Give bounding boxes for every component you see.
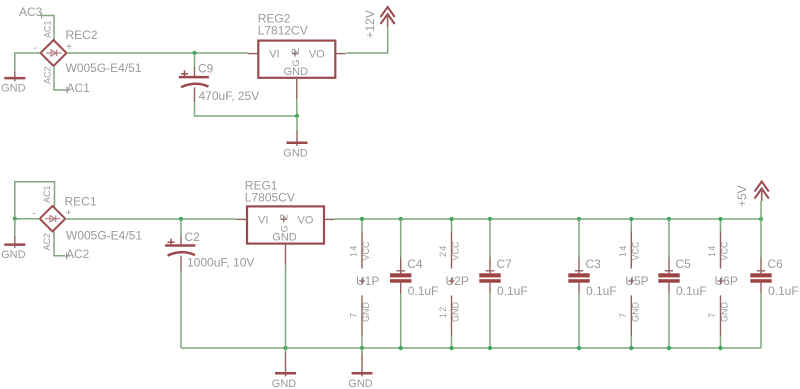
svg-text:L7805CV: L7805CV <box>245 191 295 205</box>
svg-text:C5: C5 <box>676 257 692 271</box>
svg-text:C2: C2 <box>185 230 201 244</box>
wire rail to C6 <box>760 219 762 258</box>
capacitor C2 <box>165 236 195 272</box>
wire junction to C2 <box>180 219 182 236</box>
svg-text:AC2: AC2 <box>42 233 52 251</box>
value 0.1uF (C6) <box>768 284 799 298</box>
svg-text:GND: GND <box>272 378 297 389</box>
svg-text:14: 14 <box>707 245 717 257</box>
svg-text:AC1: AC1 <box>67 81 91 95</box>
svg-text:7: 7 <box>618 312 628 318</box>
wire REG2 VO to +12V <box>346 26 387 54</box>
label C2 <box>185 230 201 244</box>
bridge rectifier REC1 <box>32 206 71 232</box>
wire junction down to ground <box>14 219 16 238</box>
IC power gate U1P <box>356 274 379 288</box>
svg-text:GND: GND <box>348 378 373 389</box>
pin name GND (U2P) <box>451 302 461 323</box>
svg-text:0.1uF: 0.1uF <box>408 284 439 298</box>
svg-text:GND: GND <box>631 302 641 323</box>
svg-text:7: 7 <box>349 312 359 318</box>
svg-text:AC1: AC1 <box>42 185 52 203</box>
svg-text:+12V: +12V <box>363 10 377 38</box>
svg-text:REC2: REC2 <box>66 28 98 42</box>
svg-text:7: 7 <box>707 312 717 318</box>
wire AC3 to REC2 AC1 pin <box>42 16 55 41</box>
label C7 <box>497 257 513 271</box>
ground GND (top left) <box>1 71 26 95</box>
junction at C2 top <box>179 217 183 221</box>
wire REC2 minus to GND <box>15 53 41 71</box>
svg-text:0.1uF: 0.1uF <box>497 284 528 298</box>
wire REG1 GND to rail <box>285 264 287 348</box>
pin number 7 (U1P GND) <box>349 312 359 318</box>
junction U1P bottom <box>360 346 364 350</box>
label C6 <box>768 257 784 271</box>
wire rail to U6P VCC pin <box>720 219 722 232</box>
svg-text:12: 12 <box>438 306 448 318</box>
net label AC2 <box>63 247 89 261</box>
pin number 24 (U2P VCC) <box>438 245 448 257</box>
wire REC1 AC1 loop <box>15 182 55 219</box>
voltage regulator REG1 <box>237 206 335 264</box>
value 1000uF, 10V <box>187 256 254 270</box>
pin name VCC (U2P) <box>451 241 461 261</box>
wire junction to C9 <box>194 53 196 68</box>
svg-text:VCC: VCC <box>631 241 641 261</box>
capacitor C9 <box>179 67 209 103</box>
junction U2P bottom <box>449 346 453 350</box>
wire U5P GND pin to rail <box>630 336 632 349</box>
junction U2P top <box>449 217 453 221</box>
svg-text:GND: GND <box>284 66 309 78</box>
label C9 <box>198 62 214 76</box>
VCC pin of U6P <box>720 231 722 268</box>
pin name AC2 of REC1 <box>42 233 52 251</box>
svg-text:REC1: REC1 <box>65 195 97 209</box>
wire REG2 GND to junction <box>296 99 298 116</box>
pin number 7 (U6P GND) <box>707 312 717 318</box>
wire U1P GND pin to rail <box>361 336 363 349</box>
svg-text:C7: C7 <box>497 257 513 271</box>
wire U6P GND pin to rail <box>720 336 722 349</box>
svg-text:AC1: AC1 <box>43 20 53 38</box>
label REG2 <box>258 12 291 26</box>
wire C5 to GND rail <box>668 294 670 348</box>
svg-text:C6: C6 <box>768 257 784 271</box>
svg-text:G: G <box>280 225 290 232</box>
svg-text:C9: C9 <box>198 62 214 76</box>
GND pin of U2P <box>451 295 453 335</box>
value W005G-E4/51 (REC2) <box>66 61 142 75</box>
svg-text:14: 14 <box>618 245 628 257</box>
junction left of REC1 <box>13 217 17 221</box>
junction C7 bottom <box>488 346 492 350</box>
wire C4 to GND rail <box>400 294 402 348</box>
wire U2P GND pin to rail <box>451 336 453 349</box>
junction below REG2 <box>295 114 299 118</box>
value 470uF, 25V <box>199 89 260 103</box>
capacitor C6 <box>750 257 771 293</box>
wire rail to U5P VCC pin <box>630 219 632 232</box>
junction C6 top <box>759 217 763 221</box>
svg-text:GND: GND <box>451 302 461 323</box>
junction C4 bottom <box>399 346 403 350</box>
junction C7 top <box>488 217 492 221</box>
wire rail to C4 <box>400 219 402 258</box>
svg-text:GND: GND <box>272 232 297 244</box>
value 0.1uF (C4) <box>408 284 439 298</box>
pin name VCC (U1P) <box>361 241 371 261</box>
wire REC2 AC2 pin to AC1 label <box>54 66 66 90</box>
junction U1P top <box>360 217 364 221</box>
junction U6P top <box>718 217 722 221</box>
VCC pin of U5P <box>630 231 632 268</box>
label C5 <box>676 257 692 271</box>
net label AC3 <box>19 5 45 19</box>
wire REC1 minus to junction <box>15 218 40 220</box>
value L7812CV <box>258 24 308 38</box>
wire C7 to GND rail <box>489 294 491 348</box>
wire rail to U1P VCC pin <box>361 219 363 232</box>
GND pin of U5P <box>630 295 632 335</box>
junction U5P bottom <box>629 346 633 350</box>
pin name AC2 of REC2 <box>43 66 53 84</box>
ground GND (below REG2) <box>283 131 308 160</box>
svg-text:GND: GND <box>283 147 308 159</box>
pin number 14 (U1P VCC) <box>349 245 359 257</box>
wire REC2 plus to REG2 VI <box>67 52 249 54</box>
label REC1 <box>65 195 97 209</box>
pin name GND (U5P) <box>631 302 641 323</box>
svg-text:VI: VI <box>258 214 268 226</box>
voltage regulator REG2 <box>248 41 346 99</box>
capacitor C7 <box>479 257 500 293</box>
svg-text:VCC: VCC <box>361 241 371 261</box>
svg-text:L7812CV: L7812CV <box>258 24 308 38</box>
svg-text:VCC: VCC <box>720 241 730 261</box>
VCC pin of U2P <box>451 231 453 268</box>
svg-text:0.1uF: 0.1uF <box>768 284 799 298</box>
svg-text:GND: GND <box>1 249 26 261</box>
wire U1P junction to ground <box>361 348 363 354</box>
value 0.1uF (C3) <box>586 284 617 298</box>
value L7805CV <box>245 191 295 205</box>
junction below REG1 <box>283 346 287 350</box>
ground GND (below U1P) <box>348 353 373 389</box>
GND pin of U1P <box>361 295 363 335</box>
ground GND (below REG1) <box>272 353 297 389</box>
svg-text:W005G-E4/51: W005G-E4/51 <box>66 61 142 75</box>
GND pin of U6P <box>720 295 722 335</box>
svg-text:0.1uF: 0.1uF <box>586 284 617 298</box>
capacitor C5 <box>658 257 679 293</box>
svg-text:14: 14 <box>349 245 359 257</box>
pin number 12 (U2P GND) <box>438 306 448 318</box>
wire rail to +5V <box>760 201 762 219</box>
value W005G-E4/51 (REC1) <box>66 229 142 243</box>
svg-text:C3: C3 <box>586 257 602 271</box>
capacitor C4 <box>390 257 411 293</box>
svg-text:-: - <box>32 209 35 220</box>
pin name GND (U6P) <box>720 302 730 323</box>
net label AC1 <box>64 81 90 95</box>
pin number 14 (U5P VCC) <box>618 245 628 257</box>
IC power gate U2P <box>446 274 469 288</box>
value 0.1uF (C5) <box>676 284 707 298</box>
junction U6P bottom <box>718 346 722 350</box>
junction C3 bottom <box>577 346 581 350</box>
wire C9 bottom to REG2 GND net <box>195 103 298 116</box>
svg-text:G: G <box>291 59 301 66</box>
value 0.1uF (C7) <box>497 284 528 298</box>
pin name VCC (U6P) <box>720 241 730 261</box>
svg-text:+5V: +5V <box>735 185 749 207</box>
wire +5V rail <box>334 218 761 220</box>
wire C2 bottom to GND rail <box>180 271 182 348</box>
bridge rectifier REC2 <box>33 40 72 66</box>
label REC2 <box>66 28 98 42</box>
svg-text:+: + <box>66 208 72 219</box>
pin name VCC (U5P) <box>631 241 641 261</box>
wire REC1 AC2 pin to AC2 label <box>54 232 65 256</box>
pin number 7 (U5P GND) <box>618 312 628 318</box>
capacitor C3 <box>568 257 589 293</box>
wire C3 to GND rail <box>578 294 580 348</box>
label +12V <box>363 10 377 38</box>
svg-text:VCC: VCC <box>451 241 461 261</box>
pin name AC1 of REC2 <box>43 20 53 38</box>
junction C5 bottom <box>667 346 671 350</box>
svg-text:470uF, 25V: 470uF, 25V <box>199 89 260 103</box>
junction U5P top <box>629 217 633 221</box>
svg-text:C4: C4 <box>407 257 423 271</box>
junction at C9 top <box>192 51 196 55</box>
svg-text:AC2: AC2 <box>66 247 90 261</box>
wire rail to C7 <box>489 219 491 258</box>
svg-text:+: + <box>66 42 72 53</box>
svg-text:GND: GND <box>720 302 730 323</box>
junction C4 top <box>399 217 403 221</box>
wire junction to ground <box>285 348 287 354</box>
IC power gate U5P <box>625 274 648 288</box>
pin name AC1 of REC1 <box>42 185 52 203</box>
svg-text:24: 24 <box>438 245 448 257</box>
wire rail to C3 <box>578 219 580 258</box>
wire GND rail <box>181 347 761 349</box>
supply +5V <box>755 182 769 202</box>
label C4 <box>407 257 423 271</box>
IC power gate U6P <box>715 274 738 288</box>
label REG1 <box>245 179 278 193</box>
wire REC1 plus to REG1 VI <box>65 218 236 220</box>
svg-text:VO: VO <box>309 49 325 61</box>
junction C3 top <box>577 217 581 221</box>
svg-text:1000uF, 10V: 1000uF, 10V <box>187 256 254 270</box>
junction C5 top <box>667 217 671 221</box>
wire rail to C5 <box>668 219 670 258</box>
svg-text:GND: GND <box>361 302 371 323</box>
svg-text:GND: GND <box>1 83 26 95</box>
svg-text:VI: VI <box>269 49 279 61</box>
wire C6 to GND rail <box>760 294 762 348</box>
wire rail to U2P VCC pin <box>451 219 453 232</box>
svg-text:W005G-E4/51: W005G-E4/51 <box>66 229 142 243</box>
ground GND (left, REC1) <box>1 236 26 261</box>
pin name GND (U1P) <box>361 302 371 323</box>
svg-text:AC2: AC2 <box>43 66 53 84</box>
pin number 14 (U6P VCC) <box>707 245 717 257</box>
svg-text:VO: VO <box>298 214 314 226</box>
wire junction to ground <box>296 116 298 131</box>
svg-text:AC3: AC3 <box>19 5 43 19</box>
supply +12V <box>381 7 395 27</box>
VCC pin of U1P <box>361 231 363 268</box>
label +5V <box>735 185 749 207</box>
label C3 <box>586 257 602 271</box>
svg-text:0.1uF: 0.1uF <box>676 284 707 298</box>
